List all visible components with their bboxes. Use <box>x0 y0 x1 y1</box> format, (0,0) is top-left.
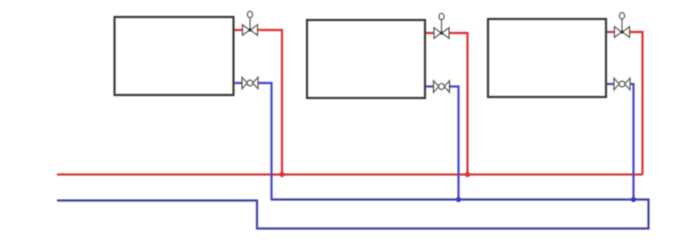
valve TRV radiator 1 <box>243 11 258 35</box>
radiator 2 <box>307 20 425 98</box>
wire blue drop radiator 1 <box>257 83 272 201</box>
wire red riser radiator 3 <box>630 32 643 175</box>
node red junction radiator 1 <box>279 172 284 177</box>
valve TRV radiator 2 <box>434 13 449 38</box>
wire blue stub radiator 1 left of valve <box>233 82 244 84</box>
wire blue drop radiator 2 <box>449 87 459 200</box>
wire red stub radiator 1 left of valve <box>233 29 244 31</box>
valve TRV radiator 3 <box>615 13 630 38</box>
node blue junction radiator 2 <box>456 197 461 202</box>
wire blue stub radiator 2 left of valve <box>424 85 435 87</box>
radiator 3 <box>488 19 606 97</box>
wire red supply main <box>57 173 643 175</box>
wire blue return main (reverse return loop) <box>57 200 649 229</box>
valve lockshield radiator 3 <box>614 78 630 90</box>
valve lockshield radiator 2 <box>434 81 450 93</box>
wire red stub radiator 2 left of valve <box>424 32 435 34</box>
wire red riser radiator 2 <box>449 33 468 175</box>
wire blue drop radiator 3 <box>629 84 634 200</box>
wire red stub radiator 3 left of valve <box>605 31 615 33</box>
node blue junction radiator 3 <box>631 197 636 202</box>
radiator 1 <box>115 17 234 95</box>
wire red riser radiator 1 <box>257 30 282 175</box>
node red junction radiator 2 <box>465 172 470 177</box>
valve lockshield radiator 1 <box>242 77 258 89</box>
wire blue stub radiator 3 left of valve <box>605 83 615 85</box>
